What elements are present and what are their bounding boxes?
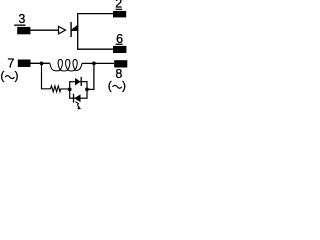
- svg-text:): ): [15, 69, 19, 83]
- svg-text:(: (: [0, 69, 4, 83]
- svg-text:): ): [122, 78, 126, 92]
- svg-text:(: (: [108, 78, 112, 92]
- svg-text:3: 3: [18, 12, 25, 26]
- svg-text:7: 7: [7, 56, 14, 70]
